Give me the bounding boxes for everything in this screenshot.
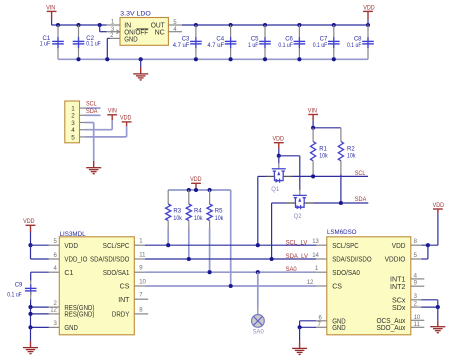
power flag VDD (LSM6DSO): [433, 202, 445, 245]
wire LIS pin12 RES: [31, 313, 49, 315]
LDO pin 4 NC (unconnected): [155, 27, 182, 37]
power flag VDD (LIS3MDL): [23, 218, 35, 245]
LIS3MDL pin 9 SDO/SA1: [103, 266, 145, 277]
svg-text:VIN: VIN: [46, 4, 56, 11]
LSM6DSO pin 13 SCL/SPC: [312, 239, 359, 250]
capacitor C3 4.7uF: [173, 25, 202, 59]
capacitor C4 4.7uF: [207, 25, 236, 59]
svg-text:13: 13: [312, 239, 319, 245]
svg-text:SDO/SA1: SDO/SA1: [103, 270, 130, 277]
resistor R1 10k: [311, 128, 329, 177]
svg-text:3.3V LDO: 3.3V LDO: [120, 10, 151, 17]
svg-text:10k: 10k: [215, 216, 224, 222]
LSM6DSO pin 3 SCx: [392, 294, 421, 304]
capacitor C6 0.1uF: [278, 25, 305, 59]
node junction Q2/SDA_LV: [270, 257, 274, 261]
capacitor C7 0.1uF: [313, 25, 340, 59]
node junction R2/SDA: [339, 201, 343, 205]
wire gate Q1: [278, 156, 280, 169]
LIS3MDL pin 5 VDD: [49, 239, 78, 250]
node junction C7/bottom rail: [332, 57, 336, 61]
node junction ground/bottom rail: [139, 57, 143, 61]
svg-text:LSM6DSO: LSM6DSO: [327, 229, 357, 236]
wire net SCL_LV: [145, 244, 316, 246]
node junction C2/top rail: [76, 23, 80, 27]
svg-text:OCS_Aux: OCS_Aux: [377, 318, 406, 325]
node junction R4/SDA_LV: [187, 257, 191, 261]
wire VIN rail to LDO IN: [52, 24, 107, 26]
capacitor C5 1uF: [248, 25, 271, 59]
svg-text:R3: R3: [173, 209, 181, 215]
svg-text:10: 10: [139, 279, 146, 285]
wire VDDIO to VDD: [421, 245, 428, 259]
wire SA0 to testpoint: [257, 272, 259, 314]
LIS3MDL pin 6 VDD_IO: [49, 253, 88, 264]
svg-text:10: 10: [414, 315, 421, 321]
wire GND pins to ground: [300, 321, 317, 328]
svg-text:DRDY: DRDY: [112, 312, 130, 319]
wire R2 to SDA: [340, 174, 342, 203]
svg-text:GND: GND: [332, 325, 346, 332]
svg-text:12: 12: [307, 280, 314, 286]
connector J1 5-pin header box: [65, 101, 80, 143]
ground symbol below connector: [86, 161, 101, 174]
resistor R3 10k: [166, 190, 183, 228]
power flag VDD (connector): [120, 115, 132, 127]
LSM6DSO pin 10 OCS_Aux: [377, 315, 425, 325]
svg-text:C4: C4: [216, 37, 224, 43]
node junction C5/top rail: [263, 23, 267, 27]
wire SCL line: [258, 175, 368, 177]
connector pin 1 wire + net label SCL: [80, 101, 101, 108]
svg-text:SDO_Aux: SDO_Aux: [377, 325, 406, 332]
svg-text:INT2: INT2: [390, 284, 406, 291]
svg-text:VDD: VDD: [23, 218, 35, 225]
svg-text:Q2: Q2: [294, 214, 303, 220]
svg-text:3: 3: [71, 120, 75, 127]
svg-text:4.7 uF: 4.7 uF: [173, 43, 190, 49]
svg-text:SCL: SCL: [86, 101, 97, 108]
LSM6DSO pin 9 INT2: [390, 281, 424, 291]
wire ON/OFF tap: [100, 25, 107, 32]
capacitor C9 0.1uF: [7, 283, 36, 299]
svg-text:4: 4: [71, 127, 75, 134]
svg-text:SDA_LV: SDA_LV: [286, 253, 309, 260]
power flag VDD (low-voltage pullups): [190, 176, 202, 190]
svg-text:Q1: Q1: [271, 187, 280, 193]
svg-text:C9: C9: [15, 283, 23, 289]
node junction C6/bottom rail: [297, 57, 301, 61]
wire VDD to pin8: [421, 244, 438, 246]
power flag VIN (connector): [107, 107, 117, 120]
svg-text:SDA: SDA: [355, 196, 367, 203]
net label SCL_LV: [286, 239, 308, 246]
svg-text:4.7 uF: 4.7 uF: [207, 43, 224, 49]
svg-text:2: 2: [71, 113, 75, 120]
net label SDA: [355, 196, 367, 203]
svg-text:SCx: SCx: [392, 298, 406, 305]
node junction C2/bottom rail: [76, 57, 80, 61]
svg-text:VDD: VDD: [273, 136, 285, 143]
transistor Q2: [287, 195, 314, 220]
wire VDD pullup rail: [168, 189, 231, 191]
wire gate Q2: [279, 156, 300, 196]
svg-text:VDD_IO: VDD_IO: [64, 257, 87, 264]
svg-text:14: 14: [312, 253, 319, 259]
node junction SCx/SDx: [436, 305, 440, 309]
transistor Q1: [266, 169, 293, 193]
LSM6DSO pin 4 INT1: [390, 273, 424, 283]
svg-text:0.1 uF: 0.1 uF: [278, 43, 293, 49]
svg-text:SCL_LV: SCL_LV: [286, 239, 308, 246]
node junction C9/RES: [28, 305, 32, 309]
ground symbol below LSM6DSO: [292, 327, 307, 354]
net label SA0: [286, 266, 297, 273]
test point SA0 (jumper pad): [252, 315, 265, 336]
node junction C4/top rail: [229, 23, 233, 27]
svg-text:0.1 uF: 0.1 uF: [7, 293, 22, 299]
LSM6DSO pin 6 GND: [316, 316, 345, 326]
wire net SDA_LV: [145, 258, 316, 260]
wire VDD vertical: [30, 245, 32, 259]
LIS3MDL pin 1 SCL/SPC: [103, 239, 145, 250]
svg-text:11: 11: [139, 252, 146, 258]
wire net SA0: [145, 271, 316, 273]
node junction C4/bottom rail: [229, 57, 233, 61]
svg-text:0.1 uF: 0.1 uF: [86, 41, 101, 47]
svg-text:VDDIO: VDDIO: [385, 257, 406, 264]
node junction R1/SCL: [311, 174, 315, 178]
LDO pin 2 GND: [107, 33, 137, 59]
net label SCL: [355, 170, 366, 177]
node junction C3/bottom rail: [194, 57, 198, 61]
connector pin 5 wire to VDD: [80, 126, 127, 137]
node junction VDD stub: [194, 188, 198, 192]
node junction ON-OFF tap/top rail: [98, 23, 102, 27]
power flag VDD (level shifter): [273, 136, 285, 156]
resistor R4 10k: [186, 190, 203, 228]
node junction GND pins: [298, 325, 302, 329]
svg-text:R5: R5: [215, 209, 223, 215]
LIS3MDL pin 3 GND: [49, 321, 78, 332]
LDO pin 3 ON/OFF with input marker: [107, 27, 149, 36]
svg-text:VDD: VDD: [363, 4, 375, 11]
svg-text:10k: 10k: [319, 154, 328, 160]
node junction GND pin3: [28, 325, 32, 329]
svg-text:11: 11: [414, 322, 421, 328]
svg-text:R2: R2: [347, 147, 355, 153]
ground symbol below LIS3MDL: [23, 327, 38, 353]
op-amp U3 LSM6DSO IMU box: [327, 229, 411, 335]
wire net CS: [145, 285, 316, 287]
wire LIS pin3 GND: [31, 326, 49, 328]
svg-text:SCL: SCL: [355, 170, 366, 177]
svg-text:RES(GND): RES(GND): [64, 312, 94, 319]
wire R3 to SCL_LV: [167, 228, 169, 245]
svg-text:VIN: VIN: [108, 107, 118, 114]
svg-text:INT1: INT1: [390, 277, 406, 284]
power flag VIN (pullups): [308, 107, 318, 127]
svg-text:SA0: SA0: [286, 266, 297, 273]
wire LIS pin4 C1 to capacitor C9: [31, 272, 49, 288]
svg-text:5: 5: [71, 134, 75, 141]
op-amp U1 3.3V LDO regulator box: [120, 10, 168, 45]
ground symbol below LDO: [133, 59, 148, 80]
LSM6DSO pin 12 CS: [307, 280, 343, 291]
svg-text:INT: INT: [118, 297, 130, 304]
wire SCx to SDx: [421, 300, 438, 307]
svg-text:NC: NC: [155, 29, 165, 36]
svg-text:C6: C6: [285, 37, 293, 43]
node junction VDD/C8/top rail: [366, 23, 370, 27]
svg-text:VDD: VDD: [190, 176, 202, 183]
node junction Q1/SCL_LV: [256, 243, 260, 247]
power flag VIN (input supply): [46, 4, 56, 25]
ground symbol right of LSM6DSO: [430, 307, 445, 333]
svg-text:1 uF: 1 uF: [40, 41, 51, 47]
wire R5 to SA0: [209, 228, 211, 272]
svg-text:C3: C3: [182, 37, 190, 43]
svg-text:C8: C8: [354, 37, 362, 43]
node junction C1/top rail: [56, 23, 60, 27]
LIS3MDL pin 11 SDA/SDI/SDO: [90, 252, 146, 263]
LIS3MDL pin 2 RES(GND): [49, 301, 95, 312]
connector pin 3 wire to ground: [80, 123, 94, 162]
net label SDA_LV: [286, 253, 309, 260]
node junction LDO GND/bottom rail: [105, 57, 109, 61]
LDO pin 5 OUT: [151, 20, 182, 30]
op-amp U2 LIS3MDL magnetometer box: [59, 231, 134, 335]
wire VIN pullup rail: [313, 127, 341, 129]
LSM6DSO pin 8 VDD: [392, 239, 422, 250]
svg-text:10k: 10k: [347, 154, 356, 160]
svg-text:1 uF: 1 uF: [248, 43, 259, 49]
capacitor C1 1uF: [40, 25, 64, 59]
wire LDO OUT to VDD rail: [182, 24, 368, 26]
node junction C3/top rail: [194, 23, 198, 27]
wire VDD rail to CS line: [230, 190, 232, 286]
LDO pin 1 IN: [107, 19, 132, 29]
wire C9 to ground net: [30, 292, 32, 308]
svg-text:GND: GND: [64, 325, 78, 332]
connector pin 2 wire + net label SDA: [80, 108, 101, 115]
svg-text:SDA/SDI/SDO: SDA/SDI/SDO: [90, 257, 130, 264]
node junction VDD/gates: [277, 154, 281, 158]
svg-text:VDD: VDD: [433, 202, 445, 209]
wire LIS pin5 VDD: [31, 244, 49, 246]
node junction R3/SCL_LV: [166, 243, 170, 247]
node junction VDDIO tap: [426, 243, 430, 247]
svg-text:LIS3MDL: LIS3MDL: [60, 231, 86, 238]
wire R4 to SDA_LV: [188, 228, 190, 259]
node junction VDD-rail/CS: [229, 284, 233, 288]
svg-text:SCL/SPC: SCL/SPC: [103, 243, 130, 250]
svg-text:R4: R4: [194, 209, 202, 215]
svg-text:SDO/SA0: SDO/SA0: [332, 270, 360, 277]
node junction C6/top rail: [297, 23, 301, 27]
resistor R2 10k: [338, 128, 356, 174]
LSM6DSO pin 1 SDO/SA0: [315, 266, 360, 277]
wire ground vertical: [30, 307, 32, 327]
LSM6DSO pin 11 SDO_Aux: [377, 322, 425, 332]
svg-text:SA0: SA0: [253, 328, 264, 335]
svg-text:10k: 10k: [194, 216, 203, 222]
LIS3MDL pin 7 INT: [118, 293, 148, 304]
svg-text:VDD: VDD: [64, 243, 78, 250]
svg-text:C1: C1: [64, 270, 73, 277]
node junction R5 top: [208, 188, 212, 192]
capacitor C8 0.1uF: [347, 25, 374, 59]
node junction R5/SA0: [208, 270, 212, 274]
svg-text:12: 12: [50, 308, 57, 314]
node junction C5/bottom rail: [263, 57, 267, 61]
power flag VDD (top right): [363, 4, 375, 25]
resistor R5 10k: [207, 190, 224, 228]
node junction VIN/R1: [311, 126, 315, 130]
node junction RES12: [28, 312, 32, 316]
svg-text:VDD: VDD: [392, 243, 406, 250]
node junction SA0 testpoint drop: [256, 270, 260, 274]
svg-text:VDD: VDD: [120, 115, 132, 122]
node junction VDD/LIS pin5: [28, 243, 32, 247]
wire SDA line: [272, 202, 369, 204]
svg-text:ON/OFF: ON/OFF: [124, 29, 148, 36]
svg-text:0.1 uF: 0.1 uF: [313, 43, 328, 49]
svg-text:VIN: VIN: [308, 107, 318, 114]
LIS3MDL pin 8 DRDY: [112, 307, 148, 318]
svg-text:SDA/SDI/SDO: SDA/SDI/SDO: [332, 257, 372, 264]
node junction C7/top rail: [332, 23, 336, 27]
node junction R4 top: [187, 188, 191, 192]
LSM6DSO pin 7 GND: [316, 322, 345, 332]
svg-text:C5: C5: [251, 37, 259, 43]
wire LIS pin2 RES: [31, 306, 49, 308]
svg-text:CS: CS: [120, 284, 130, 291]
capacitor C2 0.1uF: [73, 25, 101, 59]
wire Q2 to SDA_LV: [271, 203, 273, 259]
LIS3MDL pin 12 RES(GND): [49, 308, 95, 319]
LSM6DSO pin 2 SDx: [392, 301, 421, 312]
svg-text:10k: 10k: [173, 216, 182, 222]
wire Q1 to SCL_LV: [257, 176, 259, 245]
wire bottom ground rail: [58, 58, 368, 60]
svg-text:GND: GND: [124, 36, 138, 43]
LIS3MDL pin 10 CS: [120, 279, 147, 290]
svg-text:R1: R1: [319, 147, 327, 153]
LIS3MDL pin 4 C1: [49, 266, 74, 277]
LSM6DSO pin 5 VDDIO: [385, 253, 422, 264]
LSM6DSO pin 14 SDA/SDI/SDO: [312, 253, 372, 264]
svg-text:SDx: SDx: [392, 305, 406, 312]
connector pin 4 wire to VIN: [80, 120, 113, 130]
svg-text:1: 1: [71, 106, 75, 113]
svg-text:CS: CS: [332, 284, 342, 291]
svg-text:SCL/SPC: SCL/SPC: [332, 243, 359, 250]
svg-text:SDA: SDA: [86, 108, 98, 115]
svg-text:C7: C7: [320, 37, 328, 43]
wire LIS pin6 VDD_IO: [31, 258, 49, 260]
svg-text:0.1 uF: 0.1 uF: [347, 43, 362, 49]
